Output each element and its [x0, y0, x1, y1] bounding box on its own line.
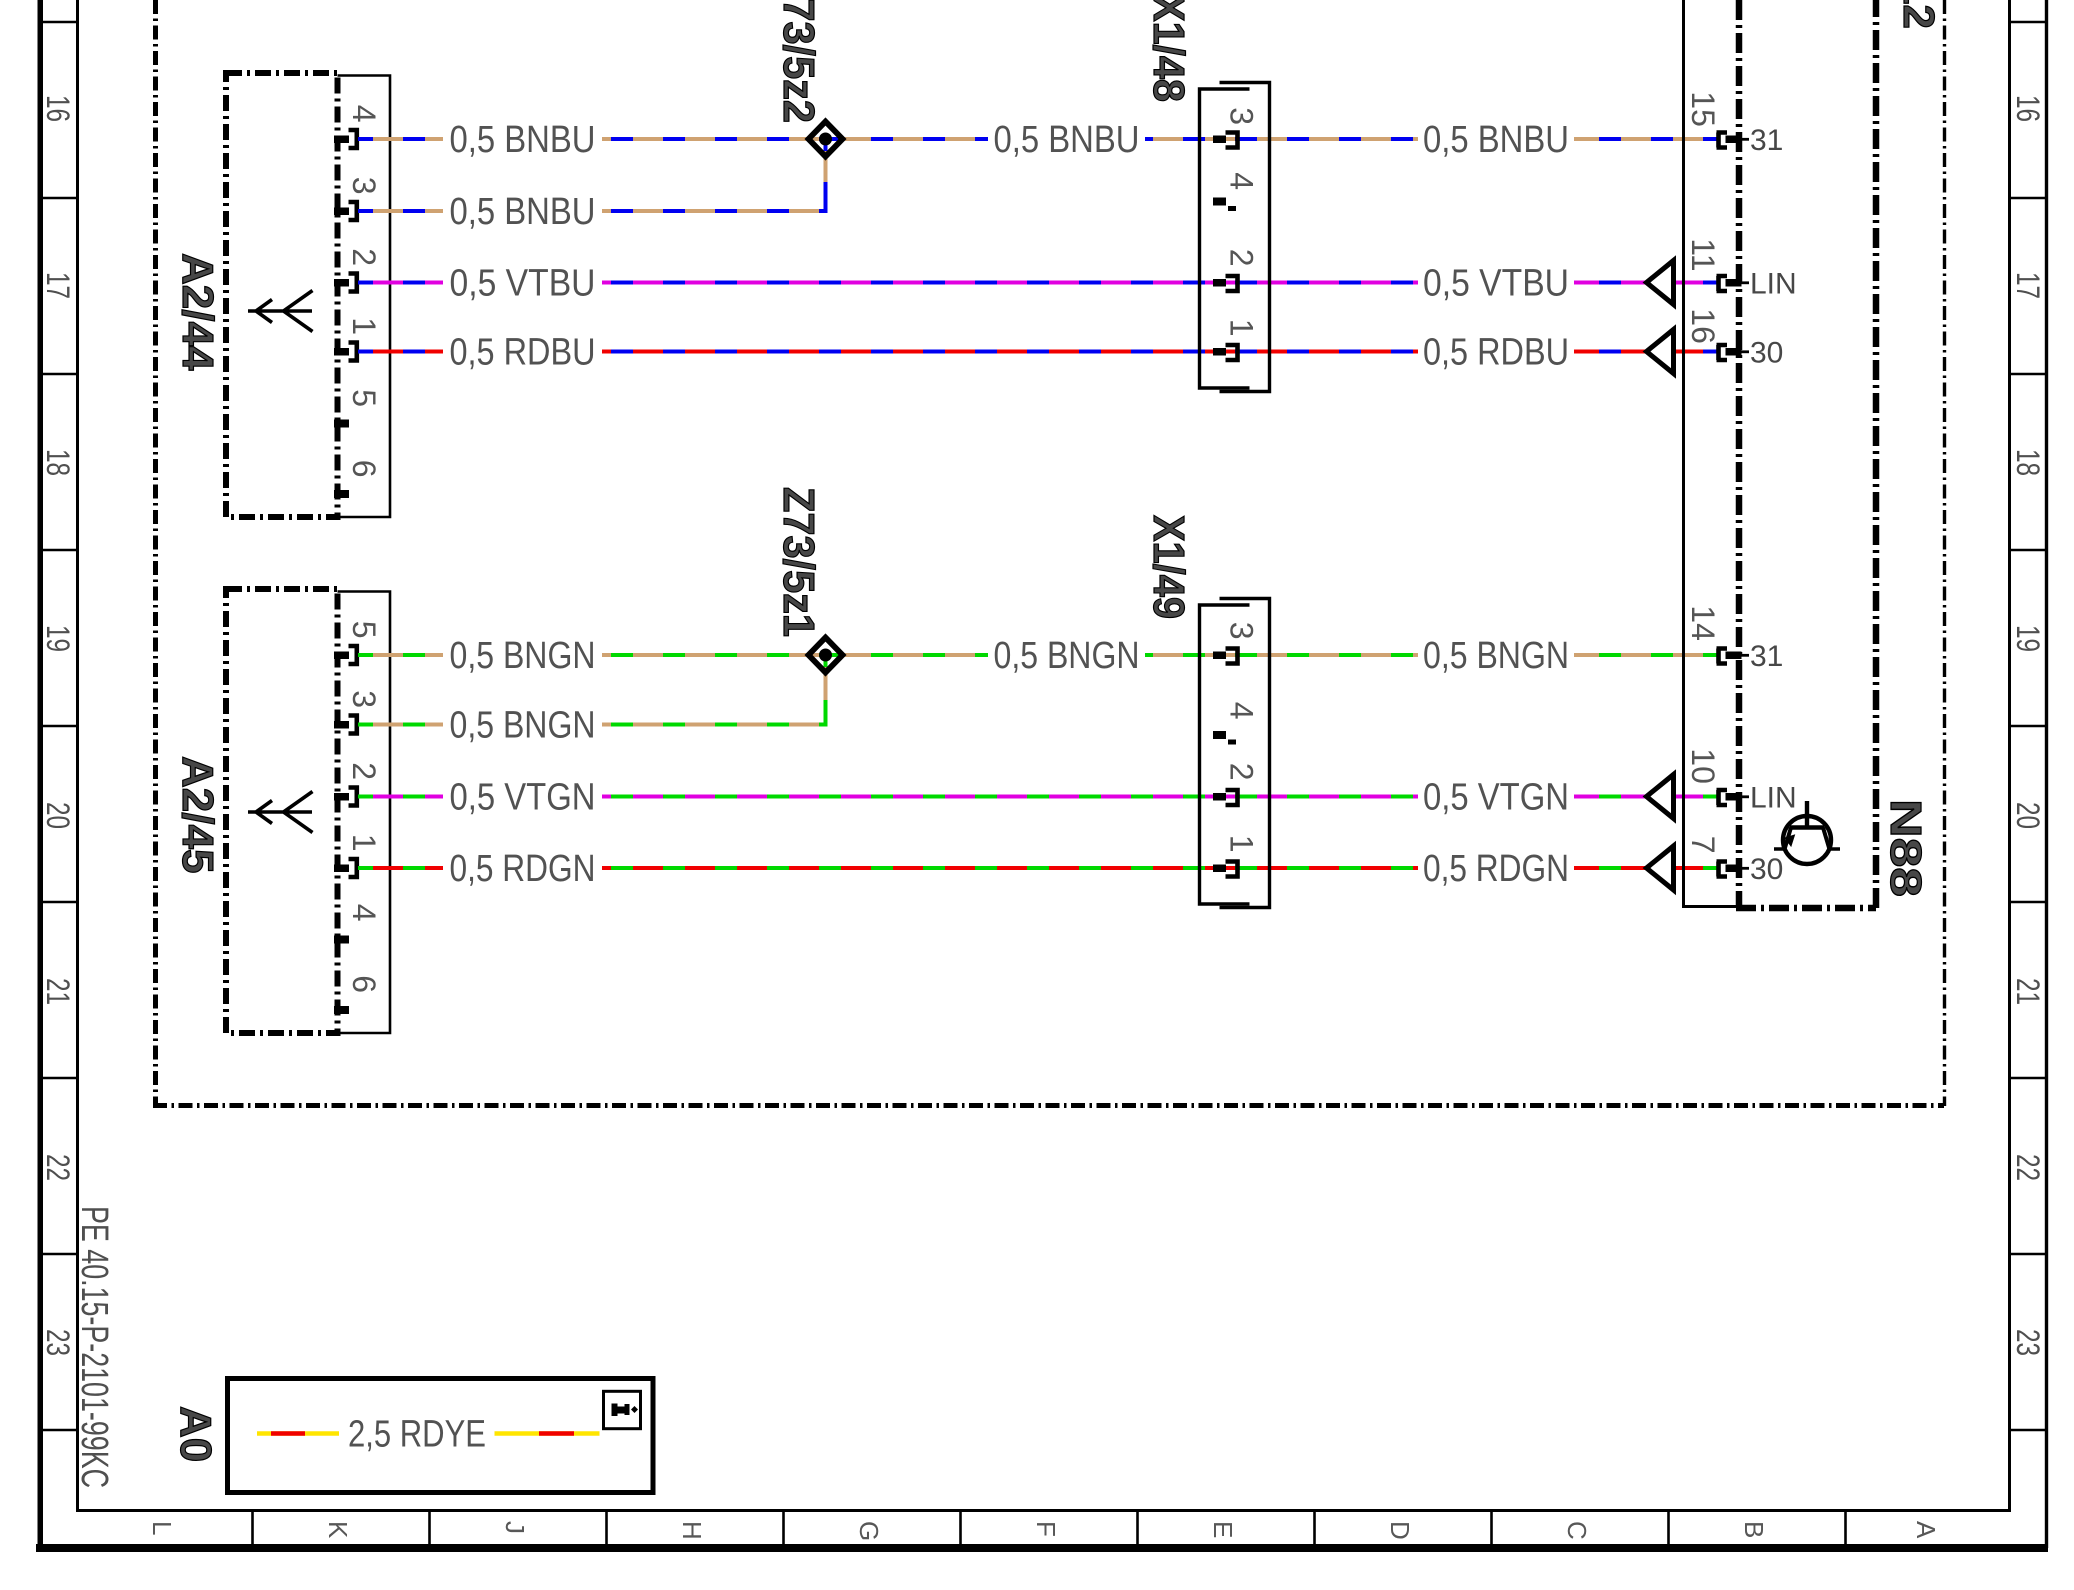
svg-text:K: K [323, 1521, 353, 1539]
svg-text:3: 3 [1224, 107, 1260, 125]
svg-text:0,5 BNGN: 0,5 BNGN [1423, 635, 1569, 677]
svg-text:D: D [1385, 1521, 1415, 1540]
svg-text:0,5 VTBU: 0,5 VTBU [450, 263, 596, 305]
svg-text:1: 1 [1224, 319, 1260, 337]
svg-text:0,5 VTGN: 0,5 VTGN [450, 777, 596, 819]
svg-text:PE 40.15-P-2101-99KC: PE 40.15-P-2101-99KC [73, 1206, 115, 1488]
svg-text:A0: A0 [171, 1406, 220, 1462]
svg-text:18: 18 [2010, 449, 2046, 476]
svg-text:1: 1 [1224, 835, 1260, 853]
svg-text:Z73/5z2: Z73/5z2 [774, 0, 823, 123]
svg-text:15: 15 [1685, 91, 1721, 127]
svg-text:17: 17 [40, 272, 76, 299]
svg-text:16: 16 [1685, 308, 1721, 344]
svg-text:0,5 BNGN: 0,5 BNGN [994, 635, 1140, 677]
svg-text:X1/49: X1/49 [1144, 515, 1193, 619]
svg-text:14: 14 [1685, 605, 1721, 641]
svg-text:19: 19 [40, 625, 76, 652]
svg-text:1: 1 [346, 317, 382, 335]
svg-text:F: F [1031, 1521, 1061, 1537]
svg-text:0,5 RDBU: 0,5 RDBU [1423, 332, 1569, 374]
svg-text:20: 20 [40, 802, 76, 829]
svg-text:20: 20 [2010, 802, 2046, 829]
svg-text:L: L [147, 1521, 177, 1535]
svg-text:0,5 VTBU: 0,5 VTBU [1423, 263, 1569, 305]
svg-text:0,5 BNBU: 0,5 BNBU [450, 191, 596, 233]
svg-text:0,5 BNGN: 0,5 BNGN [450, 635, 596, 677]
svg-text:21: 21 [2010, 978, 2046, 1005]
svg-text:22: 22 [40, 1154, 76, 1181]
svg-text:4: 4 [1224, 702, 1260, 720]
svg-text:5: 5 [346, 621, 382, 639]
svg-text:23: 23 [40, 1329, 76, 1356]
svg-text:N88: N88 [1881, 799, 1930, 897]
svg-text:6: 6 [346, 975, 382, 993]
svg-text:12: 12 [1894, 0, 1943, 29]
svg-text:B: B [1739, 1521, 1769, 1538]
svg-text:10: 10 [1685, 748, 1721, 784]
svg-text:J: J [500, 1521, 530, 1534]
svg-text:6: 6 [346, 460, 382, 478]
svg-text:E: E [1208, 1521, 1238, 1538]
svg-text:0,5 BNBU: 0,5 BNBU [994, 119, 1140, 161]
svg-text:4: 4 [346, 105, 382, 123]
svg-text:2: 2 [1224, 249, 1260, 267]
svg-text:2: 2 [1224, 763, 1260, 781]
svg-text:Z73/5z1: Z73/5z1 [774, 487, 823, 637]
svg-text:0,5 BNBU: 0,5 BNBU [1423, 119, 1569, 161]
svg-text:17: 17 [2010, 272, 2046, 299]
svg-text:0,5 VTGN: 0,5 VTGN [1423, 777, 1569, 819]
svg-text:30: 30 [1750, 337, 1783, 370]
svg-text:0,5 BNGN: 0,5 BNGN [450, 705, 596, 747]
svg-text:2: 2 [346, 762, 382, 780]
svg-text:16: 16 [2010, 95, 2046, 122]
svg-text:0,5 RDGN: 0,5 RDGN [450, 848, 596, 890]
svg-text:23: 23 [2010, 1329, 2046, 1356]
svg-text:LIN: LIN [1750, 782, 1797, 815]
svg-text:A2/44: A2/44 [173, 253, 222, 371]
svg-text:30: 30 [1750, 853, 1783, 886]
svg-text:21: 21 [40, 978, 76, 1005]
svg-text:2,5 RDYE: 2,5 RDYE [348, 1414, 486, 1456]
svg-text:3: 3 [1224, 622, 1260, 640]
svg-text:4: 4 [346, 904, 382, 922]
svg-text:G: G [854, 1521, 884, 1541]
svg-text:22: 22 [2010, 1154, 2046, 1181]
svg-text:31: 31 [1750, 124, 1783, 157]
svg-text:1: 1 [346, 834, 382, 852]
svg-text:LIN: LIN [1750, 268, 1797, 301]
svg-text:18: 18 [40, 449, 76, 476]
svg-text:3: 3 [346, 690, 382, 708]
svg-text:4: 4 [1224, 172, 1260, 190]
svg-text:11: 11 [1685, 238, 1721, 271]
svg-text:5: 5 [346, 389, 382, 407]
svg-text:0,5 BNBU: 0,5 BNBU [450, 119, 596, 161]
svg-text:A2/45: A2/45 [173, 756, 222, 873]
svg-text:7: 7 [1685, 836, 1721, 854]
svg-text:0,5 RDBU: 0,5 RDBU [450, 332, 596, 374]
svg-text:2: 2 [346, 248, 382, 266]
svg-text:19: 19 [2010, 625, 2046, 652]
svg-text:A: A [1911, 1521, 1941, 1539]
svg-text:H: H [677, 1521, 707, 1540]
svg-text:3: 3 [346, 177, 382, 195]
svg-text:0,5 RDGN: 0,5 RDGN [1423, 848, 1569, 890]
svg-text:X1/48: X1/48 [1144, 0, 1193, 102]
svg-text:C: C [1562, 1521, 1592, 1540]
svg-text:31: 31 [1750, 640, 1783, 673]
svg-text:16: 16 [40, 95, 76, 122]
